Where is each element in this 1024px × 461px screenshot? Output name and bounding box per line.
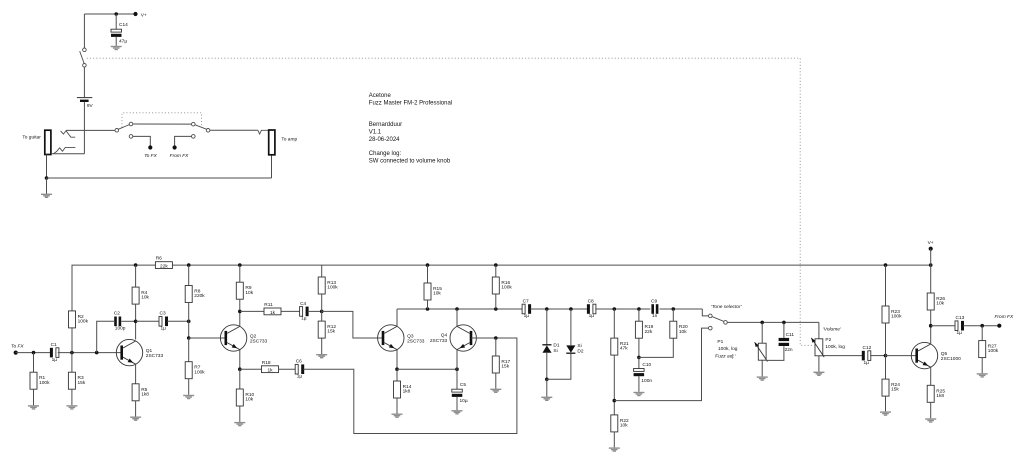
- wire C3 to R8 column: [167, 320, 189, 322]
- svg-text:To guitar: To guitar: [22, 135, 41, 141]
- ground below R17: [490, 389, 501, 393]
- label Volume: [823, 326, 842, 332]
- wire C5 top lead: [456, 369, 458, 389]
- wire R10 top lead: [239, 369, 241, 389]
- svg-text:C5: C5: [460, 382, 466, 388]
- bypass switch left lever: [118, 125, 129, 130]
- wire C14 top lead: [115, 14, 117, 29]
- ground below R7: [183, 395, 194, 399]
- svg-text:To FX: To FX: [144, 153, 157, 159]
- wire R3 top lead: [71, 353, 73, 373]
- wire P1 bottom lead: [761, 360, 763, 376]
- ground below jacks: [41, 194, 52, 198]
- wire Q3 collector lead: [396, 309, 398, 327]
- terminal V+ (top): [133, 12, 137, 16]
- node Q5 collector/C13: [929, 324, 933, 328]
- svg-text:SW connected to volume knob: SW connected to volume knob: [369, 159, 451, 165]
- wire P1 wiper to C11: [767, 346, 784, 360]
- resistor R15: [424, 283, 442, 300]
- label To amp: [281, 137, 297, 143]
- wire C14 bottom lead: [115, 37, 117, 46]
- node rail/R23: [884, 263, 888, 267]
- resistor R4: [132, 287, 149, 304]
- node rail/Q4 collector: [455, 307, 459, 311]
- wire collector node to C3: [136, 320, 160, 322]
- wire R13 top lead: [321, 265, 323, 277]
- ground below R25: [925, 418, 936, 422]
- ground below R14: [392, 414, 403, 418]
- wire P2 wiper to C12: [824, 355, 863, 357]
- power switch contact bottom: [83, 64, 87, 68]
- resistor R26: [927, 293, 945, 310]
- svg-text:2SC733: 2SC733: [430, 338, 448, 344]
- capacitor C7: [522, 298, 531, 319]
- potentiometer P1: [755, 342, 768, 361]
- capacitor C10: [634, 369, 645, 377]
- svg-text:100n: 100n: [641, 378, 652, 384]
- transistor Q1: [116, 339, 163, 365]
- svg-text:22n: 22n: [785, 347, 793, 353]
- node rail/R16 bottom: [494, 307, 498, 311]
- node C4/R12/R13: [320, 310, 324, 314]
- wire R11 to C4: [281, 310, 300, 312]
- resistor R7: [185, 362, 205, 379]
- capacitor C5: [452, 389, 463, 397]
- wire From FX return: [175, 136, 192, 145]
- capacitor C12: [862, 345, 872, 366]
- node Q1 collector/C2/C3: [134, 320, 138, 324]
- wire R24 bottom lead: [885, 396, 887, 412]
- resistor R19: [635, 321, 653, 338]
- wire Q2 base lead: [189, 337, 226, 339]
- svg-text:100k: 100k: [78, 319, 89, 325]
- label Q4: [430, 332, 448, 344]
- svg-text:C13: C13: [956, 315, 965, 321]
- svg-text:10k: 10k: [433, 291, 441, 297]
- wire R16 bottom lead: [495, 294, 497, 309]
- ground below R24: [880, 411, 891, 415]
- wire R21 to R22: [613, 355, 615, 415]
- svg-text:15k: 15k: [327, 329, 335, 335]
- capacitor C13: [955, 315, 965, 336]
- ground below P2: [813, 372, 824, 376]
- wire R15 top lead: [427, 265, 429, 283]
- capacitor C2: [114, 311, 126, 332]
- wire D1 top lead: [546, 309, 548, 344]
- svg-text:Si: Si: [553, 348, 557, 354]
- node ground junction below J1: [45, 176, 49, 180]
- capacitor C1: [50, 342, 59, 363]
- wire R24 top lead: [885, 356, 887, 380]
- wire R8 to Q2 base node: [188, 303, 190, 339]
- svg-text:Fuzz Master FM-2 Professional: Fuzz Master FM-2 Professional: [369, 101, 452, 107]
- capacitor C11: [779, 338, 790, 346]
- svg-text:C10: C10: [642, 362, 651, 368]
- wire R14 top lead: [396, 369, 398, 381]
- wire right pole to amp jack: [210, 129, 258, 131]
- svg-text:15k: 15k: [78, 380, 86, 386]
- wire D1 bottom lead: [546, 353, 548, 380]
- potentiometer P2: [811, 338, 824, 357]
- svg-text:10k: 10k: [620, 423, 628, 429]
- transistor Q2: [220, 325, 267, 351]
- resistor R17: [492, 356, 510, 373]
- wire R18 to C6: [279, 368, 296, 370]
- label C5: [460, 382, 468, 404]
- svg-text:1k: 1k: [270, 310, 276, 316]
- resistor R3: [68, 372, 85, 389]
- svg-text:47µ: 47µ: [119, 39, 127, 45]
- svg-text:V1.1: V1.1: [369, 130, 382, 136]
- resistor R23: [882, 306, 902, 323]
- ground below R3: [66, 405, 77, 409]
- node rail/R9: [238, 263, 242, 267]
- wire common emitter link: [397, 368, 457, 370]
- transistor Q5: [911, 342, 961, 368]
- wire R9 top lead: [239, 265, 241, 282]
- svg-text:10k: 10k: [936, 301, 944, 307]
- wire emitter node to R18: [240, 368, 262, 370]
- svg-text:100k, log: 100k, log: [718, 346, 738, 352]
- svg-text:15k: 15k: [501, 364, 509, 370]
- wire R22 bottom lead: [613, 432, 615, 448]
- label P2: [825, 337, 845, 350]
- node D1/D2 junction: [545, 378, 549, 382]
- wire R7 top lead: [188, 338, 190, 362]
- wire R23 bottom lead: [885, 323, 887, 356]
- capacitor C14: [111, 29, 122, 37]
- tone selector throw 2: [709, 326, 713, 330]
- svg-text:Change log:: Change log:: [369, 151, 402, 157]
- label C11: [785, 332, 795, 353]
- resistor R13: [318, 277, 338, 294]
- wire D1 ground lead: [546, 379, 548, 396]
- wire R17 top lead: [495, 338, 497, 356]
- svg-text:From FX: From FX: [995, 314, 1014, 320]
- svg-text:100k: 100k: [194, 369, 205, 375]
- wire node to Q3 base: [322, 311, 383, 338]
- wire C12 to Q5 base node: [870, 355, 885, 357]
- svg-text:V+: V+: [141, 12, 147, 18]
- wire input to C1: [16, 352, 50, 354]
- svg-text:To FX: To FX: [11, 344, 24, 350]
- wire R27 bottom lead: [981, 358, 983, 374]
- ground below R22: [609, 447, 620, 451]
- bypass switch left pole: [115, 129, 119, 133]
- resistor R11: [264, 302, 281, 316]
- ground below R10: [234, 422, 245, 426]
- ground below P1: [757, 376, 768, 380]
- resistor R25: [927, 385, 945, 402]
- wire Q5 base lead: [886, 355, 917, 357]
- svg-text:1k8: 1k8: [141, 391, 149, 397]
- wire output rail segment 1: [397, 308, 523, 310]
- resistor R5: [132, 384, 149, 401]
- wire Q4 base to node: [471, 337, 496, 339]
- svg-text:C14: C14: [119, 22, 128, 28]
- node rail/D1: [545, 307, 549, 311]
- svg-text:1k8: 1k8: [403, 389, 411, 395]
- svg-text:R18: R18: [262, 360, 271, 366]
- wire Q4 emitter lead: [456, 349, 458, 369]
- resistor R20: [670, 321, 688, 338]
- svg-text:2SC733: 2SC733: [146, 353, 164, 359]
- wire R19 bottom lead: [638, 338, 640, 357]
- svg-text:'Volume': 'Volume': [823, 326, 842, 332]
- wire R17 bottom lead: [495, 373, 497, 389]
- label Tone selector: [711, 304, 743, 310]
- resistor R1: [30, 372, 50, 389]
- wire C1 to Q1 base: [58, 352, 122, 354]
- ground below R1: [28, 405, 39, 409]
- wire supply rail: [173, 264, 931, 266]
- terminal From FX (switch): [173, 145, 177, 149]
- resistor R27: [979, 341, 999, 358]
- wire C10 top lead: [638, 357, 640, 368]
- wire tone throw 2 to R22 node: [614, 328, 708, 401]
- svg-text:100k: 100k: [891, 314, 902, 320]
- label C14: [119, 22, 128, 44]
- svg-text:100k: 100k: [327, 285, 338, 291]
- node R21/R22/tone: [613, 399, 617, 403]
- node R2/R3 divider junction: [70, 351, 74, 355]
- svg-text:100k: 100k: [988, 348, 999, 354]
- svg-text:C7: C7: [523, 298, 529, 304]
- wire R3 bottom lead: [71, 389, 73, 405]
- node C3/R8 junction: [187, 320, 191, 324]
- wire V+ to power switch: [83, 14, 85, 48]
- wire collector node to C13: [931, 325, 956, 327]
- svg-text:1n: 1n: [652, 313, 658, 319]
- wire Q1 emitter to R5: [135, 364, 137, 384]
- resistor R10: [236, 389, 254, 406]
- wire C6 feedback loop to Q4 base: [303, 338, 517, 434]
- label P1: [714, 339, 737, 360]
- wire C5 bottom lead: [456, 397, 458, 410]
- wire R20 to C10 node: [639, 338, 673, 357]
- wire R21 top lead: [613, 309, 615, 338]
- wire jack sleeve line: [51, 153, 85, 155]
- power switch contact top: [83, 48, 87, 52]
- wire R1 bottom lead: [33, 389, 35, 405]
- svg-text:D2: D2: [577, 349, 583, 355]
- node V+ junction above C14: [114, 12, 118, 16]
- svg-text:D1: D1: [553, 342, 559, 348]
- wire rail to tone throw 1: [702, 309, 708, 316]
- resistor R24: [882, 379, 900, 396]
- node Q5 base/R23/R24: [884, 354, 888, 358]
- svg-text:1µ: 1µ: [297, 373, 303, 379]
- ground below R5: [130, 417, 141, 421]
- wire R4 to Q1 collector: [135, 304, 137, 339]
- svg-text:Acetone: Acetone: [369, 93, 392, 99]
- bypass switch right lever: [195, 125, 207, 130]
- ground below C14: [111, 46, 122, 50]
- bypass switch DPDT link box: [122, 113, 202, 128]
- wire Q5 emitter to R25: [930, 367, 932, 385]
- bypass switch contact top-left: [129, 122, 133, 126]
- bypass switch right pole: [206, 129, 210, 133]
- svg-text:P1: P1: [717, 339, 723, 345]
- resistor R18: [262, 360, 279, 374]
- resistor R8: [185, 286, 205, 303]
- wire jack tip to bypass switch: [66, 129, 115, 131]
- svg-text:'Fuzz adj.': 'Fuzz adj.': [714, 354, 736, 360]
- wire ground node lead: [46, 178, 48, 194]
- node rail/R4: [134, 263, 138, 267]
- transistor Q3: [378, 325, 425, 351]
- svg-text:C8: C8: [588, 298, 594, 304]
- ground below C10: [633, 392, 644, 396]
- node Q1 base junction: [95, 351, 99, 355]
- wire P2 bottom lead: [818, 356, 820, 372]
- wire R5 bottom lead: [135, 401, 137, 417]
- node rail/R15 bottom: [426, 307, 430, 311]
- svg-text:1µ: 1µ: [589, 313, 595, 319]
- capacitor C9: [651, 298, 658, 319]
- resistor R2: [69, 311, 89, 328]
- wire R12 bottom lead: [321, 339, 323, 355]
- jack J2 tip spring: [258, 130, 269, 134]
- node Q4 emitter/C5: [455, 367, 459, 371]
- wire R4 top lead: [135, 265, 137, 287]
- svg-text:2SC733: 2SC733: [407, 338, 425, 344]
- svg-text:2SC733: 2SC733: [250, 338, 268, 344]
- tone selector throw 1: [709, 314, 713, 318]
- capacitor C4: [300, 301, 309, 322]
- node rail/R15: [426, 263, 430, 267]
- jack J1 tip contact zigzag: [61, 131, 76, 138]
- svg-text:Q4: Q4: [441, 332, 448, 338]
- wire P2 top lead: [818, 322, 820, 338]
- wire R9 to Q2 collector: [239, 299, 241, 326]
- svg-text:100p: 100p: [115, 326, 126, 332]
- wire C10 bottom lead: [638, 376, 640, 392]
- label To FX (input): [11, 344, 24, 350]
- capacitor C3: [159, 311, 168, 332]
- svg-text:Si: Si: [577, 343, 581, 349]
- svg-text:R6: R6: [156, 256, 162, 262]
- svg-text:'Tone selector': 'Tone selector': [711, 304, 743, 310]
- svg-text:10k: 10k: [679, 329, 687, 335]
- wire C2 to collector node: [121, 320, 135, 322]
- svg-text:C4: C4: [300, 301, 306, 307]
- svg-text:2SC1000: 2SC1000: [941, 356, 961, 362]
- power switch lever: [80, 51, 85, 63]
- node rail/R8: [187, 263, 191, 267]
- svg-text:100k, log: 100k, log: [825, 344, 845, 350]
- capacitor C8: [587, 298, 596, 319]
- node Q2 base junction: [187, 336, 191, 340]
- svg-text:C2: C2: [114, 311, 120, 317]
- node R19/R20/C10: [637, 356, 641, 360]
- wire P1 top lead: [761, 322, 763, 343]
- jack J1 To guitar body: [45, 130, 51, 154]
- power net V+ top wire: [84, 13, 135, 15]
- transistor Q4: [450, 325, 476, 351]
- label V+ (top): [141, 12, 147, 18]
- svg-text:10µ: 10µ: [460, 398, 468, 404]
- svg-text:1k8: 1k8: [936, 393, 944, 399]
- svg-text:1µ: 1µ: [301, 316, 307, 322]
- wire R14 bottom lead: [396, 398, 398, 414]
- wire V+ right feed: [930, 249, 932, 265]
- node Q3 emitter/R14: [395, 367, 399, 371]
- label To guitar: [22, 135, 41, 141]
- label From FX (switch): [170, 153, 189, 159]
- svg-text:V+: V+: [928, 240, 934, 246]
- resistor R9: [236, 282, 253, 299]
- bypass switch contact top-right: [192, 122, 196, 126]
- wire C13 to output: [963, 325, 999, 327]
- svg-text:C6: C6: [296, 359, 302, 365]
- wire R19 top lead: [638, 309, 640, 321]
- svg-text:1µ: 1µ: [524, 313, 530, 319]
- svg-text:1µ: 1µ: [864, 360, 870, 366]
- label C10: [641, 362, 652, 384]
- resistor R6: [155, 256, 172, 270]
- wire Q2 emitter lead: [239, 349, 241, 369]
- svg-text:C3: C3: [160, 311, 166, 317]
- wire R1 top lead: [33, 353, 35, 373]
- wire To FX send: [133, 136, 151, 145]
- terminal From FX output: [997, 324, 1001, 328]
- tone selector lever: [712, 317, 724, 322]
- wire R20 top lead: [672, 309, 674, 321]
- wire D2 to D1 junction: [547, 353, 571, 379]
- node input/R1 junction: [32, 351, 36, 355]
- wire jack J1 to ground node: [46, 154, 48, 178]
- svg-text:1µ: 1µ: [161, 326, 167, 332]
- node rail/D2: [569, 307, 573, 311]
- node tone/C11: [782, 321, 786, 325]
- wire R27 top lead: [981, 326, 983, 341]
- svg-text:100k: 100k: [501, 285, 512, 291]
- wire R8 top lead: [188, 265, 190, 285]
- wire R26 top lead: [930, 265, 932, 293]
- node rail/V+ feed: [929, 263, 933, 267]
- svg-text:28-06-2024: 28-06-2024: [369, 137, 400, 143]
- svg-text:22k: 22k: [645, 329, 653, 335]
- svg-text:100k: 100k: [39, 380, 50, 386]
- svg-text:22k: 22k: [160, 264, 168, 270]
- svg-text:From FX: From FX: [170, 153, 189, 159]
- diode D2: [566, 343, 584, 355]
- terminal To FX input: [14, 351, 18, 355]
- resistor R12: [318, 321, 336, 338]
- resistor R16: [492, 277, 512, 294]
- wire R23 top lead: [885, 265, 887, 306]
- wire R12 top lead: [321, 311, 323, 321]
- label V+ (right): [928, 240, 934, 246]
- title text block: [369, 93, 452, 165]
- node rail/R20: [672, 307, 676, 311]
- wire R15 bottom lead: [427, 300, 429, 309]
- svg-text:To amp: To amp: [281, 137, 297, 143]
- wire tone pole row: [727, 321, 819, 323]
- node Q2 emitter junction: [238, 367, 242, 371]
- svg-text:220k: 220k: [194, 293, 205, 299]
- resistor R21: [611, 338, 629, 355]
- tone selector pole: [724, 321, 728, 325]
- wire C11 top lead: [783, 322, 785, 338]
- wire bypass top link: [133, 123, 192, 125]
- wire ground bus to amp jack: [47, 177, 272, 179]
- svg-text:R11: R11: [264, 302, 273, 308]
- mechanical link SW to volume pot: [87, 58, 815, 345]
- svg-text:15k: 15k: [891, 387, 899, 393]
- svg-text:C11: C11: [786, 332, 795, 338]
